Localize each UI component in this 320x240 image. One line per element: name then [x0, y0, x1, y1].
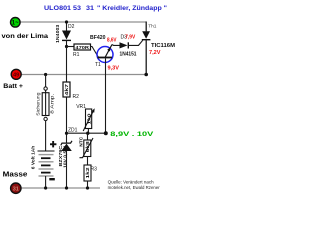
- svg-text:BF420: BF420: [90, 35, 106, 41]
- svg-text:T1: T1: [95, 62, 101, 68]
- trimmer VR1: [83, 108, 95, 131]
- svg-text:R3: R3: [91, 167, 98, 173]
- zener diode ZD1: [61, 141, 72, 151]
- svg-text:9,3V: 9,3V: [108, 66, 120, 72]
- wire: node A to R1: [67, 46, 75, 48]
- battery plus sign: [50, 141, 56, 147]
- wire: R3 to Masse rail: [87, 181, 89, 188]
- svg-text:6 Volt 1Ah: 6 Volt 1Ah: [31, 146, 37, 170]
- wire: link line node B to T1 collector: [67, 132, 106, 134]
- svg-text:470R: 470R: [75, 45, 89, 51]
- svg-text:Batt +: Batt +: [3, 83, 23, 90]
- svg-text:1k2: 1k2: [85, 167, 90, 179]
- svg-text:" Kreidler, Zündapp ": " Kreidler, Zündapp ": [97, 5, 167, 12]
- wire: link line down to NTC: [87, 133, 89, 140]
- thyristor Th1: [142, 31, 151, 39]
- resistor R3: [84, 165, 91, 181]
- svg-text:1N4151: 1N4151: [120, 52, 137, 58]
- node A junction: [65, 45, 68, 48]
- svg-text:31: 31: [86, 5, 95, 12]
- svg-text:8,6V: 8,6V: [107, 37, 117, 43]
- svg-text:TIC116M: TIC116M: [151, 43, 175, 49]
- svg-text:4k7: 4k7: [64, 83, 69, 95]
- fuse holder bottom connector: [44, 117, 47, 120]
- svg-text:Quelle: Verändert nach: Quelle: Verändert nach: [108, 180, 155, 185]
- wire: D2 branch vertical (top rail to node A): [66, 22, 68, 31]
- wire: Th1 cathode down to Batt+ rail: [145, 40, 147, 75]
- node: junction on top rail at D2: [65, 20, 68, 23]
- terminal 1~ (von der Lima): [11, 18, 21, 28]
- node: junction VR1/NTC on link line: [86, 132, 89, 135]
- wire: ZD1 anode to Masse rail: [66, 151, 68, 188]
- svg-text:8 Amp.: 8 Amp.: [49, 94, 54, 114]
- wire: battery minus to Masse rail: [45, 176, 47, 188]
- wire: fuse to battery plus: [45, 121, 47, 151]
- wire: Batt+ rail: [21, 74, 146, 76]
- diode D2: [62, 31, 71, 41]
- svg-text:R1: R1: [73, 52, 80, 58]
- wire: NTC to R3: [87, 157, 89, 166]
- svg-text:Th1: Th1: [148, 23, 157, 29]
- fuse holder top connector: [44, 87, 47, 90]
- thermistor NTC: [80, 138, 94, 158]
- node: link line right end: [104, 131, 108, 135]
- wire: Masse ground rail: [21, 187, 100, 189]
- node: junction Batt+ rail to fuse: [44, 73, 47, 76]
- wire: node A down through Batt+ rail to R2: [66, 47, 68, 83]
- svg-text:NTC: NTC: [79, 136, 85, 147]
- wire: T1 emitter to D3: [112, 44, 120, 47]
- svg-text:motelek.net, Ewald Rzener: motelek.net, Ewald Rzener: [108, 185, 161, 190]
- svg-text:Masse: Masse: [3, 172, 28, 179]
- wire: D3 cathode to Th1 gate: [128, 40, 142, 45]
- wire: top rail from terminal 1~ to thyristor corner: [20, 21, 146, 23]
- terminal 31 (Masse): [11, 183, 21, 193]
- svg-text:von der Lima: von der Lima: [2, 33, 49, 40]
- wire: top rail corner down to Th1 anode: [145, 22, 147, 32]
- svg-text:VR1: VR1: [76, 104, 86, 110]
- svg-text:6k8: 6k8: [85, 141, 90, 153]
- svg-text:7,2V: 7,2V: [149, 50, 161, 56]
- svg-text:R2: R2: [73, 94, 80, 100]
- svg-text:ZD1: ZD1: [68, 128, 78, 134]
- wire: D2 cathode to node A: [66, 40, 68, 48]
- node: junction Th1 on Batt+ rail: [144, 73, 148, 77]
- svg-text:Sicherung: Sicherung: [36, 92, 41, 116]
- wire: T1 collector down to link node: [105, 58, 107, 133]
- diode D3: [120, 42, 129, 48]
- node B junction (link line left): [65, 132, 68, 135]
- node: junction R3 on Masse rail: [86, 186, 89, 189]
- wire: rail to fuse top connector: [45, 75, 47, 88]
- resistor R2: [63, 82, 70, 97]
- wire: VR1 bottom to link line: [87, 129, 89, 134]
- svg-text:7,9V: 7,9V: [125, 35, 136, 41]
- resistor R1: [74, 44, 91, 51]
- svg-text:49: 49: [13, 73, 19, 79]
- battery B1 6 Volt 1Ah: [38, 151, 55, 176]
- svg-text:31: 31: [13, 187, 19, 193]
- fuse Si1: [42, 90, 49, 115]
- wire: R1 to T1 base: [91, 47, 99, 58]
- svg-text:D2: D2: [68, 24, 75, 30]
- battery minus sign: [49, 178, 55, 180]
- svg-text:1~: 1~: [12, 21, 19, 27]
- transistor T1 BF420: [97, 45, 113, 63]
- svg-text:8,9V . 10V: 8,9V . 10V: [110, 131, 154, 138]
- wire: R2 bottom to node B: [66, 97, 68, 143]
- svg-text:1N4003: 1N4003: [55, 24, 61, 43]
- svg-text:ULO801 53: ULO801 53: [44, 5, 82, 12]
- terminal 49 (Batt +): [11, 69, 21, 79]
- node: junction battery on Masse rail: [44, 186, 47, 189]
- node: junction ZD1 on Masse rail: [65, 186, 68, 189]
